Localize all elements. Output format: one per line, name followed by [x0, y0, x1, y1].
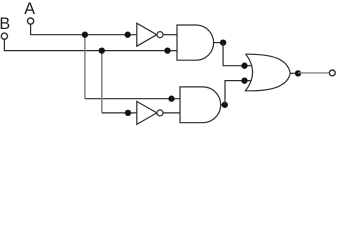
- wire AND2 output up to OR lower input: [225, 81, 253, 105]
- junction dot at AND2 output: [222, 102, 228, 108]
- wire AND1 output down to OR upper input: [223, 43, 253, 66]
- wire AND2 output: [221, 104, 225, 106]
- svg-text:A: A: [24, 0, 35, 18]
- junction dot at AND2 top input: [168, 96, 174, 102]
- junction dot at OR upper input: [241, 63, 247, 69]
- wire OR output to terminal: [298, 72, 330, 74]
- wire B from terminal to AND1 lower input: [4, 40, 177, 51]
- junction dot on wire B at branch: [99, 47, 105, 53]
- wire A branch down: [84, 35, 86, 99]
- AND gate U3 (top): [177, 25, 214, 60]
- wire inverter U1 output to AND1: [163, 34, 177, 36]
- junction dot on wire A at branch: [82, 32, 88, 38]
- wire AND1 output: [214, 42, 224, 44]
- inverter U2 (NOT gate, bottom): [137, 101, 163, 124]
- wire inverter U2 output to AND2: [163, 112, 180, 114]
- junction dot at AND1 output: [220, 39, 226, 45]
- svg-text:B: B: [0, 15, 10, 33]
- input terminal B: [1, 33, 7, 39]
- wire OR output: [290, 72, 298, 74]
- AND gate U4 (bottom): [180, 87, 221, 123]
- junction dot at OR output: [295, 70, 301, 76]
- wire inverter U2 input horizontal: [102, 112, 137, 114]
- inverter U1 (NOT gate, top): [137, 23, 163, 46]
- junction dot on wire A at inverter U1 input: [125, 32, 131, 38]
- junction dot at OR lower input: [241, 77, 247, 83]
- input terminal A: [28, 18, 34, 24]
- junction dot on wire B at AND1 lower input: [164, 47, 170, 53]
- wire AND2 top input horizontal: [85, 98, 181, 100]
- junction dot at inverter U2 input: [125, 110, 131, 116]
- wire B branch down: [101, 51, 103, 113]
- OR gate U5: [246, 54, 291, 91]
- output terminal: [329, 70, 335, 76]
- wire A from terminal to inverter U1 input: [31, 24, 137, 34]
